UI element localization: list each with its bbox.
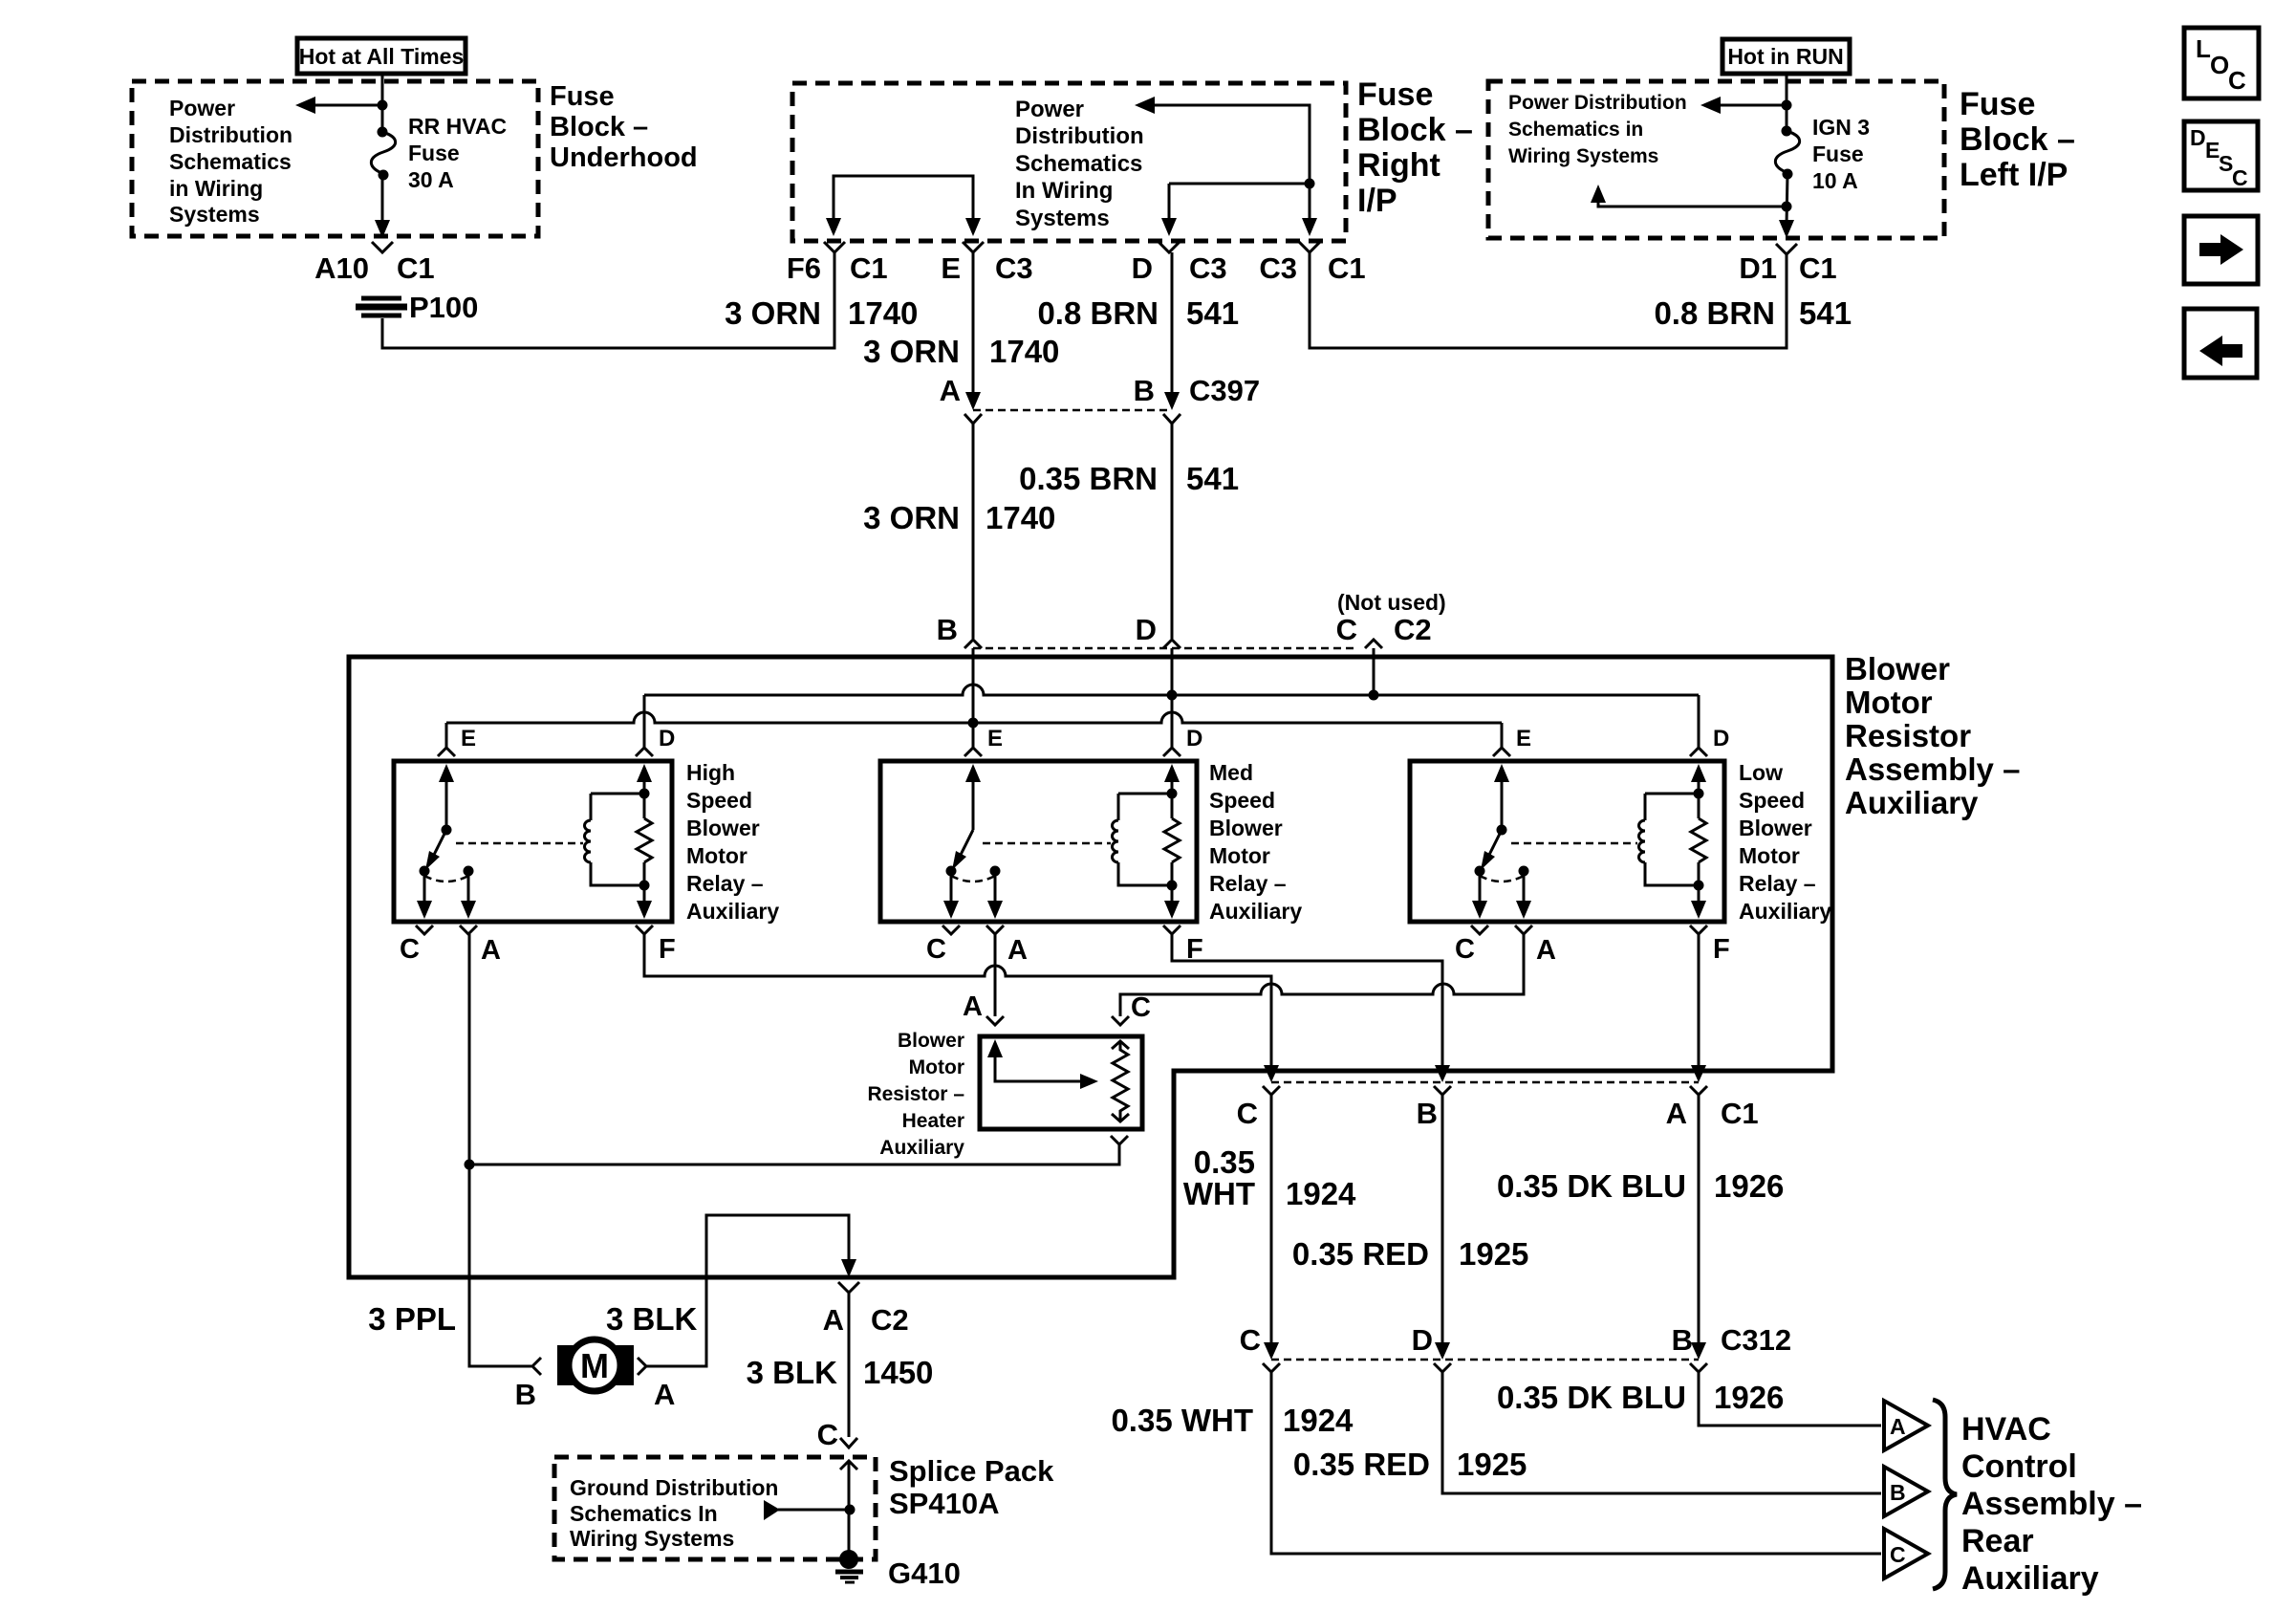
label Blower Motor Resistor Assembly - Auxiliary (1845, 651, 2020, 820)
svg-text:Distribution: Distribution (169, 122, 292, 147)
svg-text:WHT: WHT (1183, 1176, 1255, 1211)
left arrow legend box (2184, 309, 2257, 378)
svg-text:F: F (1713, 934, 1730, 965)
svg-text:E: E (461, 726, 476, 751)
svg-text:Wiring Systems: Wiring Systems (1508, 145, 1658, 167)
svg-text:D: D (659, 726, 675, 751)
HVAC control pin C triangle (1884, 1529, 1928, 1578)
svg-text:C3: C3 (1259, 251, 1297, 285)
svg-text:F6: F6 (787, 251, 821, 285)
svg-text:0.35: 0.35 (1194, 1144, 1255, 1180)
relay mechanical link dashed (456, 842, 583, 845)
wire C1 A to C312 B (0.35 DK BLU 1926) (1698, 1095, 1700, 1351)
relay terminal C chevron (942, 925, 960, 934)
svg-text:Auxiliary: Auxiliary (686, 899, 779, 924)
svg-text:Blower: Blower (1209, 816, 1283, 840)
connector female halves below right I/P box (824, 242, 1320, 252)
relay wire contact C to box edge (943, 871, 959, 919)
HVAC control pin B triangle (1884, 1467, 1928, 1516)
relay contact A (464, 866, 474, 877)
svg-text:C1: C1 (850, 251, 888, 285)
svg-text:B: B (1134, 374, 1155, 407)
relay wire contact A to box edge (461, 871, 476, 919)
svg-text:Auxiliary: Auxiliary (1961, 1560, 2099, 1597)
relay terminal D chevron (1690, 748, 1707, 756)
svg-text:Med: Med (1209, 760, 1253, 785)
fuse block underhood dashed box (132, 81, 538, 236)
svg-text:A10: A10 (314, 251, 369, 285)
relay terminal E chevron (1493, 748, 1510, 756)
svg-text:Speed: Speed (1739, 788, 1805, 813)
relay terminal D chevron (636, 748, 653, 756)
relay contact C (1475, 866, 1485, 877)
svg-text:Low: Low (1739, 760, 1783, 785)
svg-text:1740: 1740 (986, 500, 1055, 535)
relay terminal C chevron (416, 925, 433, 934)
relay alternate position dashed arc (1480, 876, 1524, 882)
svg-text:D: D (1412, 1323, 1433, 1357)
label Fuse Block - Underhood (550, 81, 698, 173)
wire fuse output to D1 pin (1779, 174, 1794, 238)
svg-text:F: F (659, 934, 676, 965)
svg-text:C: C (2232, 165, 2248, 190)
wire motor A up over to connector C2 pin A (3 BLK) (646, 1215, 856, 1366)
wire C2 B to relay 2 terminal E (972, 648, 975, 748)
svg-text:A: A (1007, 935, 1028, 966)
relay wire terminal D down through resistor to F (637, 764, 652, 919)
svg-text:C: C (926, 934, 946, 965)
svg-text:Motor: Motor (1739, 843, 1800, 868)
fuse RR HVAC 30 A (371, 127, 395, 181)
svg-text:Schematics: Schematics (1015, 151, 1142, 177)
svg-text:1924: 1924 (1283, 1403, 1354, 1438)
heater resistor bottom terminal chevron (1111, 1136, 1128, 1144)
svg-text:Wiring Systems: Wiring Systems (570, 1526, 734, 1551)
heater resistor pin A chevron (986, 1016, 1004, 1025)
wire C1 B to C312 D (0.35 RED 1925) (1441, 1095, 1444, 1351)
label Blower Motor Resistor - Heater Auxiliary (867, 1030, 964, 1159)
svg-text:Systems: Systems (1015, 206, 1110, 231)
svg-text:Schematics in: Schematics in (1508, 119, 1643, 141)
svg-text:Motor: Motor (1209, 843, 1270, 868)
svg-text:Left I/P: Left I/P (1960, 157, 2068, 193)
svg-text:B: B (937, 613, 958, 646)
reference arrow up (left I/P internal) (1591, 185, 1792, 212)
wire label 0.35 WHT stacked (1183, 1144, 1255, 1211)
svg-text:E: E (1516, 726, 1531, 751)
svg-text:Fuse: Fuse (1960, 86, 2035, 122)
svg-text:3 ORN: 3 ORN (725, 295, 821, 331)
relay switch arm (425, 830, 446, 870)
svg-text:Splice Pack: Splice Pack (889, 1454, 1054, 1488)
svg-text:C1: C1 (1799, 251, 1837, 285)
svg-text:Heater: Heater (902, 1110, 964, 1132)
svg-text:Underhood: Underhood (550, 142, 698, 173)
wire relay1 F to C1 pin C (via bus under relays) (644, 934, 1271, 1075)
relay wire contact C to box edge (1472, 871, 1487, 919)
relay terminal C chevron (1471, 925, 1488, 934)
connector C2 chevron pin B (964, 640, 982, 648)
svg-text:D: D (1713, 726, 1729, 751)
svg-text:SP410A: SP410A (889, 1487, 999, 1520)
svg-text:0.35 RED: 0.35 RED (1293, 1447, 1430, 1482)
hot in RUN label box (1722, 39, 1850, 74)
svg-text:C397: C397 (1189, 374, 1260, 407)
grommet P100 (356, 298, 407, 316)
fuse label RR HVAC Fuse 30 A (408, 114, 507, 192)
svg-text:Relay –: Relay – (1209, 871, 1287, 896)
heater resistor pin C chevron (1112, 1016, 1129, 1025)
svg-text:Speed: Speed (1209, 788, 1275, 813)
svg-text:C1: C1 (1328, 251, 1366, 285)
svg-text:Control: Control (1961, 1448, 2077, 1485)
relay name label (686, 760, 779, 924)
svg-text:Auxiliary: Auxiliary (1845, 785, 1979, 820)
relay resistor (terminal D to F) (1691, 818, 1706, 862)
relay mechanical link dashed (1511, 842, 1637, 845)
svg-text:L: L (2196, 34, 2211, 63)
svg-text:Hot in RUN: Hot in RUN (1727, 44, 1843, 69)
svg-text:1924: 1924 (1286, 1176, 1356, 1211)
wire from Hot in RUN into left I/P box (1786, 74, 1788, 128)
svg-text:O: O (2210, 51, 2229, 79)
svg-text:Right: Right (1357, 147, 1440, 184)
blower motor resistor heater box (980, 1036, 1142, 1129)
svg-text:Blower: Blower (686, 816, 760, 840)
wire relay2 A to heater resistor pin A (994, 934, 997, 1016)
wire C312 B to HVAC control pin A (0.35 DK BLU 1926) (1699, 1372, 1881, 1426)
connector C1 left I/P female half (1776, 244, 1797, 254)
wire into ground G410 (840, 1461, 857, 1551)
wire C312 D to HVAC control pin B (0.35 RED 1925) (1442, 1372, 1881, 1493)
svg-text:0.35 BRN: 0.35 BRN (1019, 461, 1158, 496)
svg-text:0.8 BRN: 0.8 BRN (1037, 295, 1159, 331)
svg-text:Ground Distribution: Ground Distribution (570, 1475, 778, 1500)
connector C2 chevron pin D (1163, 640, 1180, 648)
svg-text:Distribution: Distribution (1015, 123, 1144, 149)
svg-text:P100: P100 (409, 291, 478, 324)
wire relay1 A down to blower motor B (3 PPL) (469, 934, 531, 1366)
relay contact C (420, 866, 430, 877)
svg-text:Auxiliary: Auxiliary (879, 1137, 964, 1159)
connector C2 motor female half (838, 1282, 859, 1293)
relay switch common feed (terminal E) (439, 764, 454, 836)
relay terminal F chevron (636, 925, 653, 934)
fuse block left I/P dashed box (1488, 81, 1944, 238)
blower motor A terminal chevron (638, 1358, 646, 1375)
wire heater resistor return to relay1 A wire (465, 1144, 1120, 1170)
svg-text:B: B (1890, 1480, 1906, 1505)
svg-text:C1: C1 (397, 251, 435, 285)
svg-text:1926: 1926 (1714, 1380, 1784, 1415)
svg-text:A: A (963, 991, 983, 1022)
note text Power Distribution Schematics in Wiring Systems (left I/P) (1508, 92, 1687, 167)
svg-text:B: B (1672, 1323, 1693, 1357)
ground distribution dashed box (554, 1457, 876, 1559)
relay switch arm (952, 830, 973, 870)
svg-text:0.8 BRN: 0.8 BRN (1654, 295, 1775, 331)
wire relay2 F to C1 pin B (1172, 934, 1442, 1075)
blower motor B terminal chevron (532, 1358, 541, 1375)
svg-text:0.35 RED: 0.35 RED (1292, 1236, 1429, 1272)
relay wire contact C to box edge (417, 871, 432, 919)
relay wire contact A to box edge (1516, 871, 1531, 919)
svg-text:1450: 1450 (863, 1355, 933, 1390)
splice pack internal arrow (764, 1500, 856, 1520)
svg-text:Rear: Rear (1961, 1523, 2034, 1559)
svg-text:Schematics In: Schematics In (570, 1501, 718, 1526)
svg-text:Assembly –: Assembly – (1845, 751, 2020, 787)
relay terminal E chevron (438, 748, 455, 756)
connector C1 underhood female half (372, 242, 393, 252)
svg-text:A: A (940, 374, 961, 407)
svg-text:Relay –: Relay – (686, 871, 764, 896)
connector C312 dashed line (1271, 1359, 1699, 1361)
svg-text:Fuse: Fuse (1357, 76, 1433, 113)
HVAC control brace (1933, 1400, 1957, 1589)
svg-text:Relay –: Relay – (1739, 871, 1816, 896)
svg-text:Blower: Blower (898, 1030, 964, 1052)
svg-text:C: C (1240, 1323, 1261, 1357)
note text Power Distribution Schematics in Wiring Systems (underhood) (169, 96, 292, 227)
svg-text:C312: C312 (1721, 1323, 1791, 1357)
relay wire contact A to box edge (987, 871, 1003, 919)
blower motor M (557, 1339, 634, 1391)
E bus drop to relay 1 terminal E (445, 723, 448, 748)
svg-text:3 BLK: 3 BLK (747, 1355, 838, 1390)
fuse label IGN 3 Fuse 10 A (1812, 115, 1870, 193)
connector C1 pin B arrow and chevron (1434, 1065, 1451, 1095)
svg-text:E: E (941, 251, 961, 285)
svg-text:541: 541 (1799, 295, 1852, 331)
svg-text:C3: C3 (1189, 251, 1227, 285)
D bus wire (0.35 BRN feed to relay D terminals) (644, 685, 1699, 701)
wire C397 B down to connector C2 pin D (0.35 BRN 541) (1171, 424, 1174, 639)
wire relay3 A to heater resistor pin C (1120, 934, 1524, 1016)
label Fuse Block - Left I/P (1960, 86, 2075, 193)
svg-text:Block –: Block – (1357, 112, 1473, 148)
svg-text:Block –: Block – (550, 112, 648, 142)
heater resistor tap arrow (987, 1039, 1098, 1089)
relay switch common feed (terminal E) (965, 764, 981, 830)
svg-text:C: C (1455, 934, 1475, 965)
svg-text:Fuse: Fuse (550, 81, 615, 112)
svg-text:Power Distribution: Power Distribution (1508, 92, 1687, 114)
fuse block right I/P dashed box (792, 83, 1346, 241)
relay contact C (946, 866, 957, 877)
svg-text:C: C (1131, 992, 1151, 1023)
label Splice Pack SP410A (889, 1454, 1054, 1520)
svg-text:1740: 1740 (989, 334, 1059, 369)
wire fuse output to connector C1 pin A10 (375, 175, 390, 238)
relay terminal A chevron (986, 925, 1004, 934)
svg-text:Auxiliary: Auxiliary (1209, 899, 1302, 924)
wire C397 A down to connector C2 pin B (3 ORN 1740) (972, 424, 975, 639)
reference arrow and internal wires to D and C1 pins (right I/P) (1135, 97, 1317, 236)
svg-text:HVAC: HVAC (1961, 1411, 2051, 1448)
connector C312 pin C arrow and chevron (1263, 1342, 1280, 1372)
svg-text:Fuse: Fuse (1812, 142, 1864, 166)
HVAC control pin A triangle (1884, 1401, 1928, 1450)
svg-text:Blower: Blower (1845, 651, 1950, 686)
note text Power Distribution Schematics In Wiring Systems (right I/P) (1015, 97, 1144, 231)
svg-text:Block –: Block – (1960, 121, 2075, 158)
connector C312 pin B arrow and chevron (1690, 1342, 1707, 1372)
wire C2 pin C (not used) to D bus (1373, 648, 1375, 695)
svg-text:30 A: 30 A (408, 167, 454, 192)
label HVAC Control Assembly - Rear Auxiliary (1961, 1411, 2142, 1597)
relay resistor (terminal D to F) (637, 818, 652, 862)
svg-text:E: E (987, 726, 1003, 751)
relay box Med speed (880, 761, 1197, 922)
svg-text:IGN 3: IGN 3 (1812, 115, 1870, 140)
svg-text:C2: C2 (1394, 613, 1432, 646)
ground symbol G410 (835, 1550, 863, 1582)
svg-text:Auxiliary: Auxiliary (1739, 899, 1831, 924)
svg-text:A: A (1666, 1097, 1687, 1130)
relay name label (1739, 760, 1831, 924)
svg-text:0.35 DK BLU: 0.35 DK BLU (1497, 1168, 1686, 1204)
svg-text:0.35 DK BLU: 0.35 DK BLU (1497, 1380, 1686, 1415)
svg-text:Fuse: Fuse (408, 141, 460, 165)
svg-text:C: C (2228, 66, 2246, 95)
relay box High speed (394, 761, 672, 922)
svg-text:Blower: Blower (1739, 816, 1812, 840)
svg-text:541: 541 (1186, 461, 1239, 496)
svg-text:1925: 1925 (1457, 1447, 1527, 1482)
relay coil (1639, 789, 1704, 891)
svg-text:Motor: Motor (1845, 685, 1933, 720)
connector C2 chevron pin C not used (1365, 640, 1382, 648)
relay switch common feed (terminal E) (1494, 764, 1509, 836)
svg-text:C: C (1237, 1097, 1258, 1130)
svg-text:D1: D1 (1739, 251, 1777, 285)
wire relay3 F down to C1 pin A (1698, 934, 1700, 1075)
svg-text:1925: 1925 (1459, 1236, 1528, 1272)
svg-text:0.35 WHT: 0.35 WHT (1111, 1403, 1253, 1438)
relay alternate position dashed arc (951, 876, 995, 882)
svg-text:I/P: I/P (1357, 183, 1397, 219)
relay contact A (1519, 866, 1529, 877)
svg-text:in Wiring: in Wiring (169, 176, 263, 201)
wire E pin down to connector C397 pin A (3 ORN 1740) (965, 252, 981, 410)
svg-text:D: D (1186, 726, 1202, 751)
heater resistor element (1112, 1041, 1129, 1121)
svg-text:Schematics: Schematics (169, 149, 292, 174)
svg-text:D: D (1132, 251, 1153, 285)
relay box Low speed (1410, 761, 1724, 922)
wire from Hot at All Times into fuse block (381, 74, 384, 128)
label Fuse Block - Right I/P (1357, 76, 1473, 219)
connector C1 pin A arrow and chevron (1690, 1065, 1707, 1095)
connector C312 pin D arrow and chevron (1434, 1342, 1451, 1372)
D bus drop to relay 3 terminal D (1698, 695, 1700, 748)
DESC legend box (2184, 121, 2258, 190)
svg-text:A: A (1890, 1414, 1906, 1439)
relay coil (585, 789, 650, 891)
connector C397 dashed line (973, 409, 1172, 412)
svg-text:Assembly –: Assembly – (1961, 1486, 2142, 1522)
svg-text:A: A (481, 935, 501, 966)
svg-text:B: B (1417, 1097, 1438, 1130)
svg-text:D: D (1136, 613, 1157, 646)
svg-text:Resistor –: Resistor – (867, 1083, 964, 1105)
svg-text:C: C (1336, 613, 1357, 646)
svg-text:Systems: Systems (169, 202, 260, 227)
relay terminal F chevron (1163, 925, 1180, 934)
svg-text:Resistor: Resistor (1845, 718, 1971, 753)
relay mechanical link dashed (983, 842, 1111, 845)
right arrow legend box (2184, 216, 2258, 284)
svg-text:C: C (400, 934, 420, 965)
splice pack female chevron (840, 1438, 857, 1448)
svg-text:Motor: Motor (686, 843, 747, 868)
E bus drop to relay 3 terminal E (1501, 723, 1504, 748)
svg-text:A: A (654, 1378, 675, 1411)
E bus wire (3 ORN feed to relay E terminals) (446, 712, 1502, 729)
svg-text:B: B (515, 1378, 536, 1411)
svg-text:A: A (1536, 935, 1556, 966)
relay terminal F chevron (1690, 925, 1707, 934)
relay wire terminal D down through resistor to F (1164, 764, 1180, 919)
svg-text:(Not used): (Not used) (1337, 590, 1446, 615)
relay terminal D chevron (1163, 748, 1180, 756)
reference arrow to power distribution schematics (left I/P) (1700, 97, 1792, 114)
svg-text:A: A (823, 1303, 844, 1337)
svg-text:C3: C3 (995, 251, 1033, 285)
connector C397 female halves (964, 414, 1180, 424)
connector C2 dashed line (973, 647, 1357, 650)
svg-text:Motor: Motor (909, 1056, 964, 1078)
wire C2 down to splice pack (3 BLK 1450) (848, 1293, 851, 1437)
svg-text:Speed: Speed (686, 788, 752, 813)
svg-text:High: High (686, 760, 735, 785)
svg-text:10 A: 10 A (1812, 168, 1858, 193)
svg-text:RR HVAC: RR HVAC (408, 114, 507, 139)
svg-text:C1: C1 (1721, 1097, 1759, 1130)
svg-text:1926: 1926 (1714, 1168, 1784, 1204)
svg-text:3 ORN: 3 ORN (863, 500, 960, 535)
wire P100 to fuse block right I/P pin F6 (3 ORN 1740) (382, 252, 834, 348)
label box "Hot at All Times" (297, 38, 466, 74)
relay contact A (990, 866, 1001, 877)
svg-text:C2: C2 (871, 1303, 909, 1337)
svg-text:C: C (817, 1418, 838, 1451)
svg-text:Hot at All Times: Hot at All Times (299, 44, 465, 69)
note text Ground Distribution Schematics In Wiring Systems (570, 1475, 778, 1551)
svg-text:C: C (1890, 1542, 1906, 1567)
svg-text:3 BLK: 3 BLK (606, 1301, 698, 1337)
svg-text:Power: Power (169, 96, 235, 120)
LOC legend box (2184, 28, 2259, 98)
relay terminal E chevron (964, 748, 982, 756)
svg-text:Power: Power (1015, 97, 1084, 122)
fuse IGN 3 10 A (1775, 126, 1799, 180)
svg-text:541: 541 (1186, 295, 1239, 331)
connector C1 dashed line (assembly bottom) (1271, 1081, 1699, 1084)
internal bus wire to F6 and E pins (right I/P) (826, 176, 981, 236)
wire C1 C to C312 C (0.35 WHT 1924) (1270, 1095, 1273, 1351)
svg-text:In Wiring: In Wiring (1015, 178, 1113, 204)
svg-text:G410: G410 (888, 1557, 961, 1590)
relay resistor (terminal D to F) (1164, 818, 1180, 862)
wire D pin down to connector C397 pin B (0.8 BRN 541) (1164, 252, 1180, 410)
relay terminal A chevron (460, 925, 477, 934)
relay name label (1209, 760, 1302, 924)
svg-text:1740: 1740 (848, 295, 918, 331)
connector C1 pin C arrow and chevron (1263, 1065, 1280, 1095)
reference arrow to power distribution schematics (underhood) (295, 97, 388, 114)
